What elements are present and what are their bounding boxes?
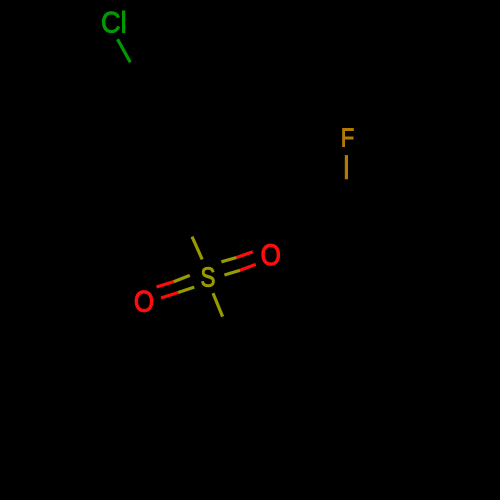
double bond S=O lower-left, line A S half bbox=[174, 275, 190, 281]
svg-text:O: O bbox=[261, 239, 281, 272]
double bond S=O upper-right, line A O half bbox=[237, 252, 253, 258]
double bond S=O upper-right, line A S half bbox=[221, 258, 236, 262]
double bond S=O lower-left, line B O half bbox=[161, 293, 178, 299]
bond Cl-C (visible Cl half) bbox=[118, 39, 131, 62]
bond C-S upper (visible S half) bbox=[192, 237, 202, 260]
double bond S=O upper-right, line B O half bbox=[240, 264, 256, 270]
svg-text:O: O bbox=[134, 285, 154, 318]
bond S-C lower (visible S half) bbox=[213, 293, 223, 316]
svg-text:F: F bbox=[341, 124, 355, 153]
double bond S=O lower-left, line A O half bbox=[157, 282, 174, 287]
bond F-C (visible F half) bbox=[345, 155, 348, 179]
double bond S=O upper-right, line B S half bbox=[224, 270, 240, 275]
double bond S=O lower-left, line B S half bbox=[178, 287, 194, 292]
svg-text:S: S bbox=[201, 262, 216, 293]
svg-text:Cl: Cl bbox=[101, 7, 127, 40]
